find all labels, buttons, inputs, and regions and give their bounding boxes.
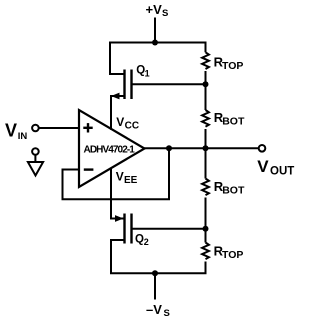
svg-text:EE: EE [124, 175, 138, 186]
node -VS supply stub wire [154, 273, 156, 299]
wire VEE pin to Q2 source [111, 168, 124, 219]
svg-text:1: 1 [145, 68, 150, 78]
svg-text:S: S [164, 308, 170, 319]
svg-text:BOT: BOT [222, 184, 245, 196]
junction +VS rail [152, 40, 158, 46]
junction -VS rail [152, 270, 158, 276]
svg-text:+V: +V [146, 2, 163, 17]
wire Q1 source to VCC pin [111, 96, 124, 130]
resistor RBOT upper [202, 110, 209, 127]
op-amp minus input sign [84, 168, 94, 170]
op-amp U1 triangle [79, 110, 145, 187]
svg-text:–V: –V [146, 302, 162, 317]
transistor Q1 channel bar [123, 70, 125, 100]
svg-text:OUT: OUT [270, 165, 294, 177]
wire resistor chain vertical [205, 43, 207, 53]
wire bottom rail [110, 272, 207, 274]
wire feedback loop [63, 148, 170, 199]
svg-text:V: V [257, 157, 269, 176]
resistor RBOT lower [202, 179, 209, 196]
resistor RTOP upper [202, 52, 209, 69]
wire top rail [110, 43, 207, 75]
svg-text:CC: CC [125, 120, 139, 131]
svg-text:TOP: TOP [222, 249, 243, 261]
svg-text:Q: Q [135, 234, 144, 246]
wire input to +IN [39, 127, 79, 129]
transistor Q1 source arrow [111, 93, 120, 100]
wire Q2 drain to bottom rail [111, 240, 124, 273]
junction Q2 gate divider [203, 226, 209, 232]
svg-text:BOT: BOT [222, 115, 245, 127]
wire Q2 gate to divider node [133, 228, 206, 230]
svg-text:V: V [5, 121, 17, 141]
ground symbol [28, 155, 43, 176]
wire Q1 gate to divider node [133, 83, 206, 85]
junction feedback output [166, 145, 172, 151]
svg-text:S: S [162, 8, 168, 19]
junction Q1 gate divider [203, 81, 209, 87]
wire output row [145, 147, 259, 149]
svg-text:IN: IN [18, 131, 28, 142]
svg-text:V: V [116, 170, 124, 184]
terminal VIN [32, 125, 39, 132]
ground terminal circle [32, 148, 39, 155]
node +VS supply stub wire [154, 18, 156, 44]
transistor Q2 gate bar [130, 214, 132, 244]
op-amp plus input sign [83, 123, 92, 132]
transistor Q1 gate bar [130, 70, 132, 100]
svg-text:V: V [116, 115, 124, 129]
svg-text:2: 2 [144, 237, 149, 247]
transistor Q2 source arrow [115, 215, 124, 222]
svg-text:ADHV4702-1: ADHV4702-1 [84, 144, 136, 155]
svg-text:TOP: TOP [222, 60, 243, 72]
terminal VOUT [259, 145, 266, 152]
junction divider output [203, 145, 209, 151]
transistor Q2 channel bar [123, 214, 125, 244]
resistor RTOP lower [202, 243, 209, 260]
wire Q1 drain to rail [109, 73, 124, 75]
